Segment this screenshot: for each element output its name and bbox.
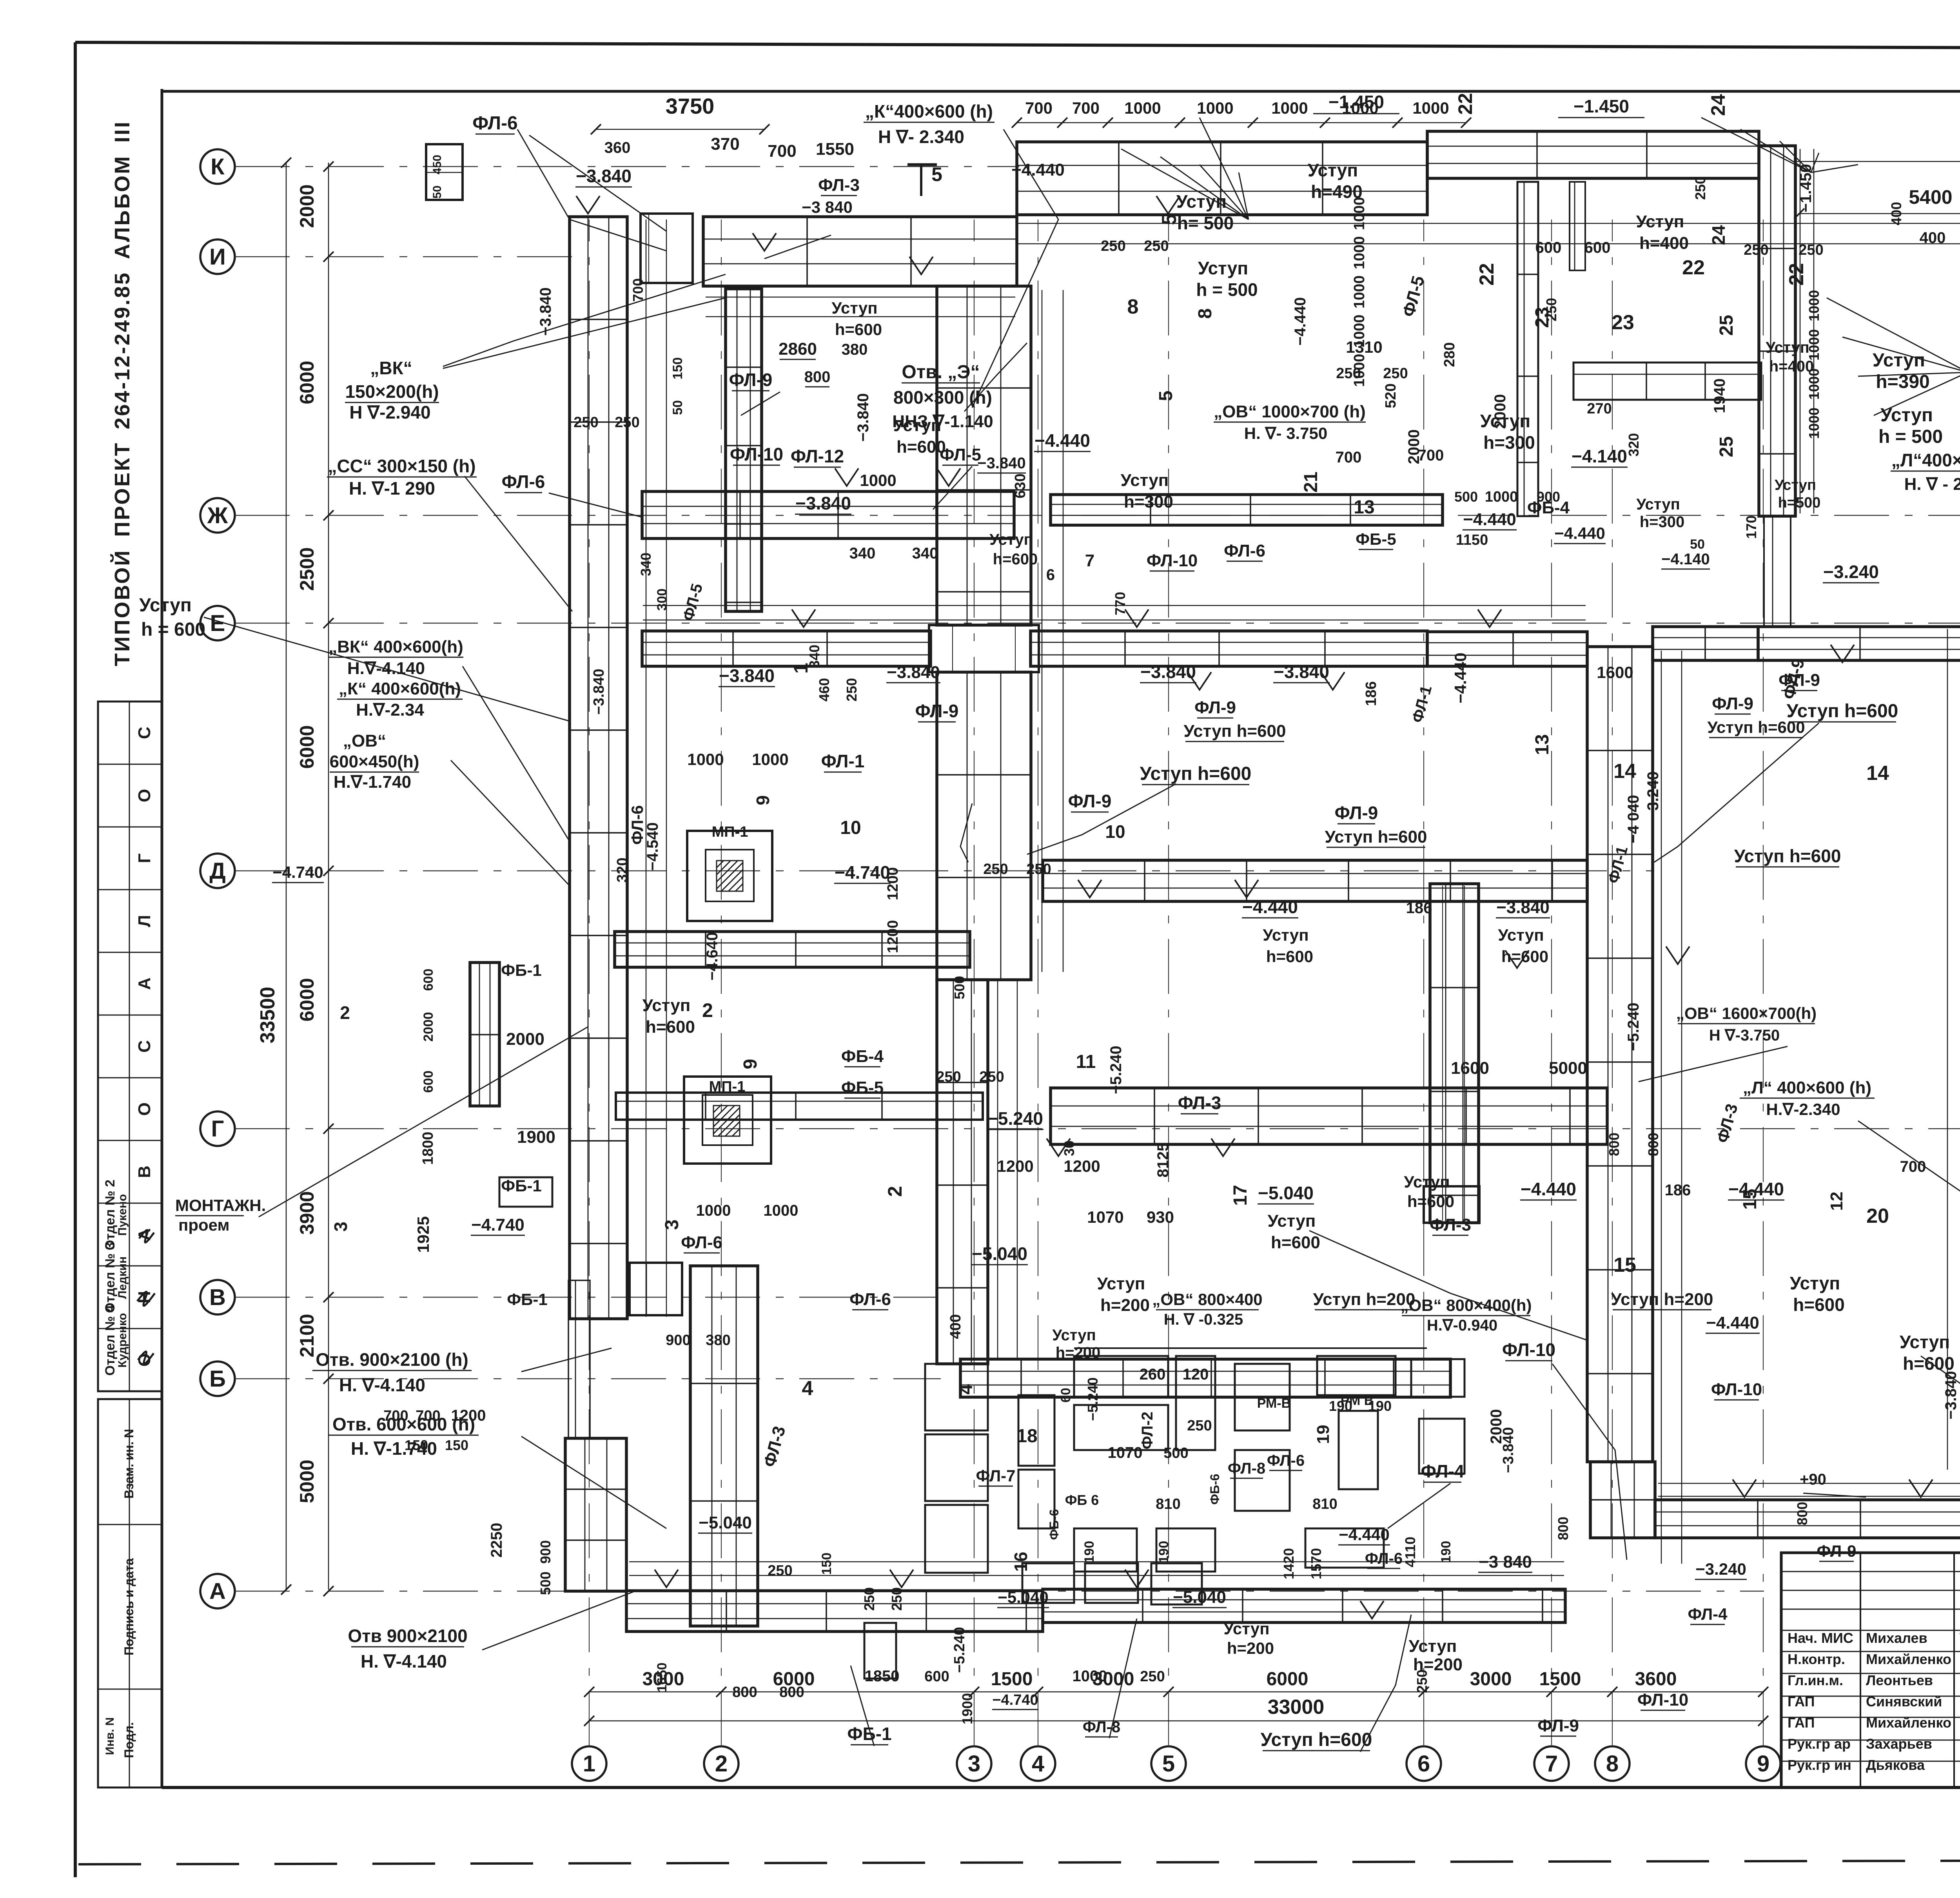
outer border left [74,42,77,1877]
left dim chain ticks [323,161,334,172]
leader FL-6 top [529,135,666,231]
svg-text:−3.840: −3.840 [1942,1371,1960,1419]
svg-text:6000: 6000 [296,361,318,404]
svg-text:1000: 1000 [764,1202,799,1219]
svg-text:500: 500 [951,976,967,999]
svg-text:Уступ: Уступ [1308,160,1358,180]
svg-text:270: 270 [1587,401,1612,417]
svg-text:−5.240: −5.240 [1625,1002,1642,1051]
svg-text:−3.840: −3.840 [977,455,1025,472]
svg-text:Уступ: Уступ [1223,1619,1269,1638]
svg-text:А: А [135,977,154,990]
axis 9 circle and line [1746,1746,1780,1781]
svg-text:1150: 1150 [1456,532,1488,548]
svg-text:6: 6 [1046,566,1055,584]
lower strip row line a [98,1524,162,1525]
svg-text:250: 250 [1744,242,1768,258]
svg-text:250: 250 [979,1069,1004,1085]
svg-text:Отдел № 4: Отдел № 4 [103,1305,118,1376]
svg-text:−5.240: −5.240 [987,1108,1043,1129]
svg-text:150×200(h): 150×200(h) [345,381,439,402]
leader l400 [1858,1121,1960,1207]
svg-text:6000: 6000 [1267,1669,1308,1690]
svg-text:С: С [135,727,154,739]
svg-text:−4.440: −4.440 [1521,1179,1576,1199]
svg-text:50: 50 [431,185,444,198]
svg-text:„ОВ“ 800×400(h): „ОВ“ 800×400(h) [1401,1296,1532,1314]
svg-text:9: 9 [740,1059,761,1070]
svg-text:120: 120 [1183,1366,1209,1383]
svg-text:Уступ h=600: Уступ h=600 [1787,701,1898,721]
svg-text:Подпись и дата: Подпись и дата [122,1558,136,1655]
svg-text:1850: 1850 [865,1668,900,1685]
svg-text:„ОВ“: „ОВ“ [343,731,386,750]
svg-text:380: 380 [706,1332,730,1349]
leader ustup600 se [1921,1356,1960,1419]
svg-text:2000: 2000 [421,1012,436,1042]
svg-text:ФЛ‑6: ФЛ‑6 [628,805,646,845]
svg-text:Уступ: Уступ [1052,1327,1096,1344]
svg-text:1000: 1000 [1351,236,1368,270]
svg-text:8: 8 [1127,295,1139,318]
wall hall left corner [1590,1462,1655,1538]
svg-text:400: 400 [947,1314,964,1339]
svg-text:17: 17 [1230,1185,1251,1206]
svg-text:−3 840: −3 840 [802,198,853,216]
wall central mid [937,672,1031,980]
leader ustup600 sw [1309,1231,1588,1340]
svg-text:800: 800 [1794,1502,1810,1525]
wall mid-north horizontal [1573,363,1761,400]
svg-text:Уступ: Уступ [1790,1273,1840,1293]
svg-text:8: 8 [1195,308,1216,319]
svg-text:h=600: h=600 [897,437,946,457]
svg-text:Н.∇‑2.34: Н.∇‑2.34 [356,700,424,720]
leader fl4 bottom [1388,1483,1450,1528]
svg-text:Н ∇‑ 2.340: Н ∇‑ 2.340 [878,127,964,147]
svg-text:1925: 1925 [414,1216,432,1253]
svg-text:ФЛ‑9: ФЛ‑9 [729,370,773,390]
svg-text:Н.∇‑0.940: Н.∇‑0.940 [1427,1317,1497,1334]
contour SE band [1658,1483,1960,1484]
svg-text:Рук.гр ар: Рук.гр ар [1788,1736,1851,1752]
lower strip row line b [98,1689,162,1690]
svg-text:−3.840: −3.840 [576,166,632,186]
svg-text:1000: 1000 [1351,197,1368,230]
svg-text:186: 186 [1363,681,1379,706]
svg-text:5000: 5000 [1549,1059,1587,1078]
svg-text:1000: 1000 [1412,99,1449,117]
svg-text:„ВК“: „ВК“ [370,358,412,378]
svg-text:8: 8 [1606,1751,1619,1777]
left dim chain total ticks [281,158,291,168]
svg-text:1000: 1000 [1806,290,1822,321]
axis 8 circle and line [1595,1746,1630,1781]
svg-text:1570: 1570 [1308,1548,1324,1579]
svg-text:Леонтьев: Леонтьев [1866,1672,1933,1688]
svg-text:Уступ: Уступ [1636,212,1684,231]
leader montazh [259,1027,588,1217]
svg-text:ФЛ‑4: ФЛ‑4 [1688,1605,1728,1623]
svg-text:Уступ h=200: Уступ h=200 [1313,1290,1416,1309]
svg-text:1940: 1940 [1711,379,1728,413]
svg-text:ФЛ‑6: ФЛ‑6 [1365,1550,1403,1567]
wall Zh band east [1051,495,1443,525]
svg-text:h=600: h=600 [993,551,1038,568]
svg-text:2250: 2250 [488,1523,505,1558]
svg-text:ФЛ‑9: ФЛ‑9 [1068,791,1112,811]
wall axis6 vertical [1430,884,1479,1223]
svg-text:1500: 1500 [1539,1669,1581,1690]
svg-text:700: 700 [383,1408,408,1424]
axis 5 circle and line [1151,1746,1186,1781]
svg-text:770: 770 [1112,592,1128,615]
svg-text:4: 4 [802,1377,813,1400]
svg-text:h=600: h=600 [1266,947,1313,966]
svg-text:h=300: h=300 [1124,492,1173,511]
svg-text:50: 50 [1690,537,1705,552]
svg-text:−3.840: −3.840 [795,493,851,513]
svg-text:2: 2 [702,999,713,1021]
monolith MP-1 b [684,1077,771,1164]
svg-text:250: 250 [1101,238,1125,254]
svg-text:Отв. 900×2100 (h): Отв. 900×2100 (h) [316,1349,468,1370]
wall step block [630,1263,682,1315]
svg-text:Уступ h=200: Уступ h=200 [1611,1290,1713,1309]
svg-text:700: 700 [1072,99,1100,117]
svg-text:1000: 1000 [1485,489,1518,505]
inner frame bottom [162,1786,1960,1789]
svg-text:1650: 1650 [655,1662,670,1692]
svg-text:1550: 1550 [816,140,854,159]
wall north thin line east [1795,161,1960,162]
svg-text:1900: 1900 [517,1128,555,1147]
svg-text:930: 930 [1147,1208,1174,1226]
svg-text:24: 24 [1707,94,1729,116]
svg-text:250: 250 [983,861,1008,877]
contour top-left band [706,297,1015,298]
svg-text:360: 360 [604,139,631,156]
svg-text:3600: 3600 [1635,1669,1677,1690]
svg-text:370: 370 [711,134,739,154]
svg-text:О: О [135,1102,154,1116]
svg-text:1000: 1000 [1124,99,1161,117]
svg-text:7: 7 [1545,1751,1558,1777]
svg-text:1200: 1200 [1063,1157,1100,1175]
svg-text:ФЛ‑10: ФЛ‑10 [1502,1340,1555,1360]
svg-text:Уступ: Уступ [1198,258,1248,278]
svg-text:2000: 2000 [506,1030,544,1049]
svg-text:Н. ∇ ‑0.325: Н. ∇ ‑0.325 [1164,1311,1243,1328]
svg-text:1000: 1000 [1197,99,1233,117]
svg-text:900: 900 [666,1332,690,1349]
svg-text:9: 9 [753,795,773,805]
svg-text:186: 186 [1665,1182,1691,1199]
top dim right row line [1017,122,1466,123]
svg-text:Михайленко: Михайленко [1866,1715,1951,1731]
wall E crossing block [929,625,1039,672]
svg-text:h=500: h=500 [1778,495,1821,511]
svg-text:Г: Г [211,1116,224,1142]
leader otv900b [482,1591,635,1650]
svg-text:250: 250 [844,678,860,702]
svg-text:Н ∇‑3.750: Н ∇‑3.750 [1709,1027,1780,1044]
svg-text:h=600: h=600 [835,320,882,339]
svg-text:25: 25 [1716,315,1737,335]
wall bottom band mid [1043,1589,1565,1622]
svg-text:500: 500 [537,1572,554,1595]
svg-text:320: 320 [614,857,631,882]
svg-text:Пукено: Пукено [116,1194,129,1236]
svg-text:Уступ: Уступ [1636,496,1680,513]
svg-text:1000: 1000 [1806,408,1822,439]
svg-text:ФБ‑1: ФБ‑1 [507,1290,547,1309]
svg-text:ФЛ‑2: ФЛ‑2 [1139,1412,1156,1449]
svg-text:Уступ: Уступ [1498,926,1544,944]
svg-text:250: 250 [1414,1670,1430,1693]
svg-text:Отдел № 2: Отдел № 2 [103,1180,118,1250]
svg-text:1: 1 [583,1751,595,1777]
svg-text:ФЛ‑12: ФЛ‑12 [791,446,844,466]
svg-text:Уступ: Уступ [1121,471,1169,490]
svg-text:ФЛ‑8: ФЛ‑8 [1083,1719,1120,1736]
svg-text:Уступ: Уступ [1775,477,1816,493]
bottom rooms cluster [925,1364,988,1430]
level-mark arrows [576,196,600,214]
svg-text:−5.040: −5.040 [1173,1588,1226,1607]
svg-text:ФЛ‑9: ФЛ‑9 [1335,803,1378,823]
svg-text:Уступ: Уступ [139,595,192,616]
svg-text:21: 21 [1301,471,1321,492]
svg-text:22: 22 [1785,263,1808,286]
svg-text:1800: 1800 [420,1132,436,1165]
svg-text:1000: 1000 [687,750,724,769]
svg-text:1000: 1000 [1351,276,1368,309]
svg-text:h=300: h=300 [1483,432,1535,453]
svg-text:ФЛ‑10: ФЛ‑10 [1711,1380,1762,1399]
svg-text:1000: 1000 [1271,99,1308,117]
leader VK2 [463,666,570,843]
svg-text:1000: 1000 [1351,315,1368,348]
svg-text:400: 400 [1920,229,1946,247]
cluster top line [1074,1347,1427,1349]
svg-text:ФЛ‑3: ФЛ‑3 [818,176,860,195]
wall D band [1043,860,1587,901]
svg-text:−3 840: −3 840 [1479,1552,1532,1572]
svg-text:600: 600 [421,1071,436,1093]
svg-text:19: 19 [1314,1425,1333,1444]
svg-text:22: 22 [1475,263,1498,286]
svg-text:−1.450: −1.450 [1797,164,1815,212]
svg-text:1500: 1500 [991,1669,1033,1690]
svg-text:600×450(h): 600×450(h) [330,752,419,771]
wall bottom-left band [626,1591,1043,1632]
contour left wall [646,219,647,1317]
axis 6 circle and line [1406,1746,1441,1781]
axis 3 circle and line [957,1746,991,1781]
svg-text:1000: 1000 [1806,329,1822,361]
svg-text:13: 13 [1532,734,1553,755]
svg-text:проем: проем [178,1216,230,1234]
svg-text:520: 520 [1383,383,1399,408]
svg-text:−4.740: −4.740 [835,862,890,883]
svg-text:340: 340 [849,545,876,562]
svg-text:h= 500: h= 500 [1177,213,1234,233]
svg-text:Н ∇‑2.940: Н ∇‑2.940 [349,402,430,422]
svg-text:„К“400×600 (h): „К“400×600 (h) [865,101,993,121]
svg-text:−5.240: −5.240 [951,1627,968,1673]
svg-text:250: 250 [1692,176,1708,200]
svg-text:ФЛ‑6: ФЛ‑6 [1267,1452,1305,1469]
svg-text:h = 600: h = 600 [141,619,205,640]
svg-text:Инв. N: Инв. N [103,1717,116,1755]
svg-text:h = 500: h = 500 [1196,279,1258,300]
wall mid-north vertical [1517,182,1538,516]
svg-text:h=600: h=600 [1271,1233,1320,1252]
svg-text:2000: 2000 [1492,394,1509,429]
svg-text:ФЛ‑9: ФЛ‑9 [1194,698,1236,717]
svg-text:150: 150 [819,1553,834,1575]
svg-text:16: 16 [1011,1552,1031,1572]
svg-text:1200: 1200 [451,1407,486,1424]
wall NE vertical thin lower [1764,516,1791,627]
svg-text:Гл.ин.м.: Гл.ин.м. [1788,1672,1843,1688]
svg-text:+90: +90 [1800,1471,1826,1488]
svg-text:1900: 1900 [959,1693,975,1724]
leader ustup topleft [204,617,570,721]
leader fl5 mid [933,466,972,509]
svg-text:−3.840: −3.840 [537,287,554,335]
svg-text:800: 800 [779,1684,804,1700]
svg-text:„ВК“ 400×600(h): „ВК“ 400×600(h) [328,637,463,656]
leader fan ustup390 [1827,298,1960,372]
svg-text:ФЛ‑1: ФЛ‑1 [821,751,865,771]
svg-text:30: 30 [1061,1140,1077,1156]
svg-text:Взам. ин. N: Взам. ин. N [122,1429,136,1499]
svg-text:−4 040: −4 040 [1625,795,1642,843]
svg-text:−4.440: −4.440 [1011,160,1065,179]
svg-text:ФЛ‑8: ФЛ‑8 [1228,1460,1265,1477]
svg-text:ФЛ‑6: ФЛ‑6 [681,1233,722,1252]
svg-text:−4.740: −4.740 [471,1215,524,1235]
svg-text:„Л“ 400×600 (h): „Л“ 400×600 (h) [1743,1078,1871,1097]
svg-text:250: 250 [1543,298,1559,321]
leader fl1 e [960,803,972,862]
wall E band blocks [642,631,931,666]
svg-text:Н.∇‑4.140: Н.∇‑4.140 [347,659,425,678]
wall left FL-5 upper [570,217,627,1319]
svg-text:1000: 1000 [1806,368,1822,400]
svg-text:И: И [209,244,226,270]
svg-text:250: 250 [1383,365,1408,382]
svg-text:1600: 1600 [1451,1059,1489,1078]
leader OV left [451,760,570,886]
svg-text:−4.440: −4.440 [1451,653,1470,703]
svg-text:−5.240: −5.240 [1107,1046,1125,1094]
svg-text:1000: 1000 [1073,1668,1107,1685]
svg-text:ННЗ ∇‑1.140: ННЗ ∇‑1.140 [892,412,993,431]
svg-text:Михайленко: Михайленко [1866,1651,1951,1667]
pier FB-1 b [499,1177,552,1207]
svg-text:−4.140: −4.140 [1572,446,1627,466]
svg-text:МП-1: МП-1 [712,824,748,840]
svg-text:Уступ: Уступ [1097,1274,1145,1293]
svg-text:20: 20 [1866,1205,1889,1227]
svg-text:810: 810 [1312,1496,1337,1512]
wall NE vertical [1759,146,1795,516]
wall axis6 end block [1424,1186,1479,1223]
svg-text:600: 600 [924,1668,949,1685]
axis Б circle and line [200,1361,235,1396]
contour central wall [1042,290,1043,972]
svg-text:Отдел № 3: Отдел № 3 [103,1242,118,1313]
svg-text:810: 810 [1156,1496,1180,1512]
svg-text:3: 3 [968,1751,980,1777]
svg-text:h=200: h=200 [1100,1296,1150,1315]
axis И circle and line [200,239,235,274]
svg-text:−3.840: −3.840 [887,663,940,682]
svg-text:22: 22 [1454,93,1476,115]
svg-text:10: 10 [1105,821,1125,842]
svg-text:−3.840: −3.840 [1496,898,1550,917]
svg-text:МОНТАЖН.: МОНТАЖН. [175,1196,266,1215]
svg-text:Н.контр.: Н.контр. [1788,1651,1845,1667]
svg-text:ФЛ‑10: ФЛ‑10 [730,444,783,464]
svg-text:Нач. МИС: Нач. МИС [1788,1630,1853,1646]
svg-text:РМ В: РМ В [1341,1393,1374,1408]
wall bottom band hall [1655,1500,1960,1538]
left dim chain line [328,163,329,1590]
svg-text:h=400: h=400 [1639,234,1689,253]
svg-text:h=300: h=300 [1640,513,1685,531]
svg-text:−3.840: −3.840 [591,669,607,714]
svg-text:ФБ‑1: ФБ‑1 [501,1177,541,1195]
personnel table verticals [1780,1553,1782,1787]
axis Д circle and line [200,854,235,888]
svg-text:ТИПОВОЙ ПРОЕКТ 264-12-249.85 А: ТИПОВОЙ ПРОЕКТ 264-12-249.85 АЛЬБОМ III [110,120,134,666]
svg-text:Уступ: Уступ [1268,1211,1316,1231]
svg-text:ФЛ‑6: ФЛ‑6 [472,113,518,134]
axis 1 circle and line [572,1746,606,1781]
svg-text:33000: 33000 [1268,1696,1325,1719]
svg-text:9: 9 [1757,1751,1769,1777]
contour E band [643,620,1586,621]
svg-text:ФЛ‑4: ФЛ‑4 [1421,1461,1465,1481]
leader fan ustup500b [1701,118,1811,172]
bottom dim chain ticks [584,1687,594,1697]
monazh opening block [864,1623,896,1679]
svg-text:25: 25 [1716,436,1737,457]
svg-text:Д: Д [209,858,225,884]
svg-text:500: 500 [1454,489,1478,505]
svg-text:320: 320 [1626,433,1642,457]
svg-text:А: А [209,1579,226,1604]
svg-text:−5.040: −5.040 [699,1513,752,1532]
svg-text:13: 13 [1354,497,1374,518]
svg-text:Н. ∇ ‑ 2.340: Н. ∇ ‑ 2.340 [1904,475,1960,494]
svg-text:450: 450 [431,155,444,174]
contour axis6 [1442,886,1443,1221]
svg-text:h=600: h=600 [1903,1353,1955,1374]
axis К circle and line [200,149,235,184]
svg-text:Н. ∇‑4.140: Н. ∇‑4.140 [339,1375,425,1395]
svg-text:50: 50 [670,400,685,415]
svg-text:Уступ: Уступ [642,996,691,1015]
svg-text:3: 3 [662,1220,682,1230]
personnel table rows [1781,1571,1960,1572]
svg-text:5: 5 [1156,391,1176,401]
svg-text:5000: 5000 [296,1459,318,1503]
